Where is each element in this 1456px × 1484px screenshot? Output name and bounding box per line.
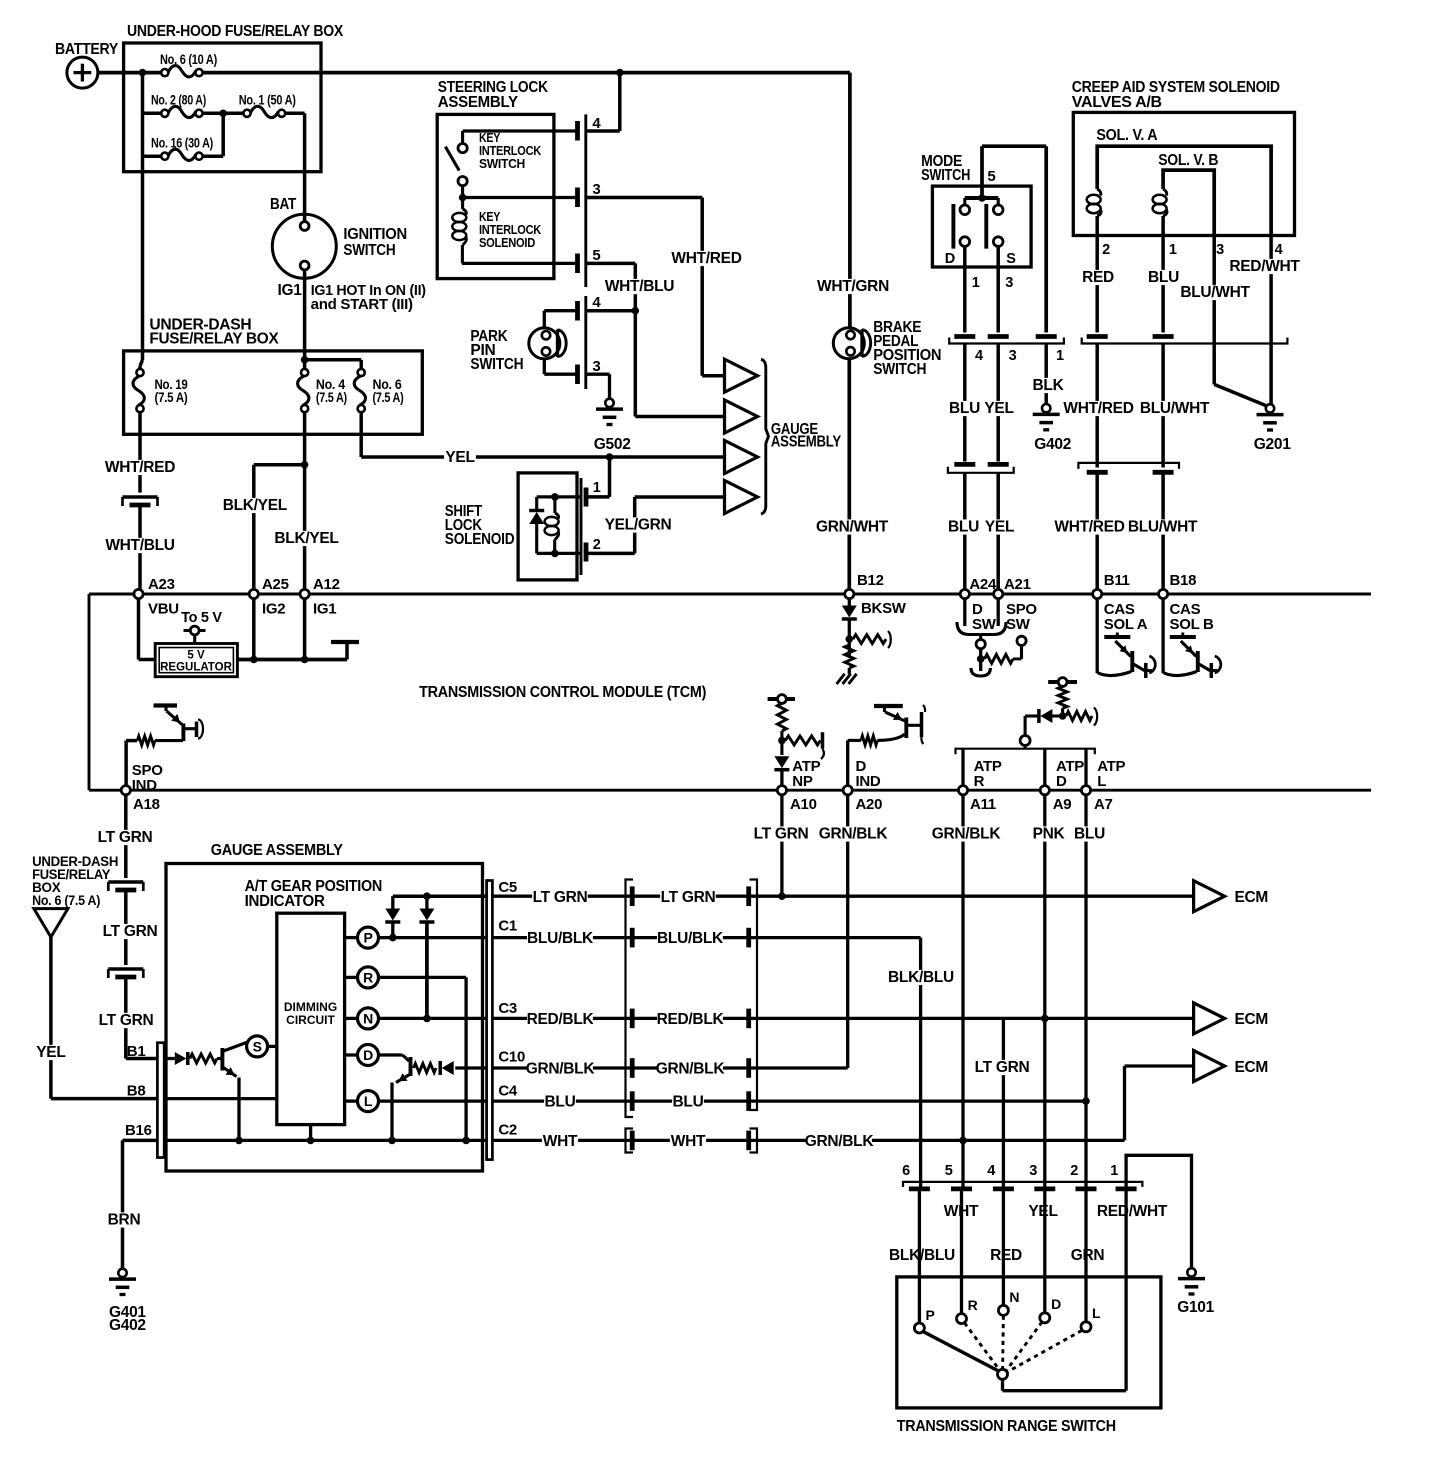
wire BLK mode pin 1 to ground	[1044, 344, 1048, 404]
BKSW junction	[846, 635, 854, 643]
D SW / SPO SW input bracket	[963, 599, 966, 626]
svg-text:C1: C1	[498, 918, 517, 935]
steering lock assembly box	[437, 114, 554, 278]
svg-text:2: 2	[593, 537, 601, 553]
svg-text:SOL. V. A: SOL. V. A	[1096, 127, 1157, 144]
B1 resistor	[190, 1054, 217, 1063]
svg-text:IGNITION: IGNITION	[343, 226, 407, 243]
svg-text:RED/WHT: RED/WHT	[1097, 1203, 1168, 1220]
contact P	[914, 1323, 924, 1333]
svg-text:5: 5	[945, 1163, 953, 1179]
brake pedal position switch	[833, 328, 864, 359]
wire WHT/RED to TCM B11	[1095, 475, 1099, 590]
shift lock coil	[553, 497, 556, 513]
svg-text:IND: IND	[856, 773, 881, 790]
wire mode D to connector	[963, 246, 967, 332]
svg-text:B1: B1	[127, 1043, 146, 1060]
shift lock connector strip	[580, 478, 583, 575]
fuse No.6 (10 A)	[161, 69, 168, 76]
svg-text:BLK/YEL: BLK/YEL	[274, 530, 338, 547]
svg-text:YEL: YEL	[984, 400, 1013, 417]
park pin connector strip	[584, 296, 587, 389]
svg-text:3: 3	[1216, 242, 1224, 258]
wire SPO IND to A18	[126, 739, 137, 743]
svg-text:PNK: PNK	[1033, 826, 1066, 843]
dashed contact R to common	[965, 1323, 1000, 1370]
BKSW series resistor down	[845, 645, 854, 668]
dimming circuit box	[277, 913, 345, 1124]
transmission control module TCM outline	[89, 593, 1371, 596]
wire down to No.2/No.16 fuses	[141, 73, 145, 114]
svg-text:R: R	[363, 969, 373, 985]
wire mode S to connector	[996, 246, 1000, 332]
pin 5	[575, 254, 580, 274]
wire pin 4 up to battery feed	[586, 129, 620, 133]
svg-text:A9: A9	[1053, 796, 1072, 813]
fuse No.16 (30 A)	[161, 153, 168, 160]
gauge assembly input 4	[725, 481, 758, 514]
wire diode to C10	[455, 1066, 486, 1069]
fuse No.19 (7.5 A)	[141, 351, 145, 360]
wire dimming to R	[345, 976, 358, 979]
wire WHT/BLU pin 5 to gauge	[586, 262, 636, 266]
svg-text:To 5 V: To 5 V	[181, 610, 222, 626]
svg-text:R: R	[974, 773, 985, 790]
wire WHT/RED creep A down	[1095, 344, 1099, 468]
svg-text:A23: A23	[148, 576, 175, 593]
wire diode to ATP common	[1025, 714, 1039, 717]
svg-text:G101: G101	[1177, 1299, 1214, 1316]
B1 input diode	[164, 1057, 175, 1060]
CAS SOL A driver	[1096, 599, 1099, 673]
svg-text:5: 5	[592, 247, 600, 264]
wire A20 GRN/BLK down	[846, 795, 849, 1068]
wire A9 PNK down	[1043, 795, 1046, 1019]
wire pin 5 into switch	[960, 1191, 963, 1314]
svg-text:G402: G402	[1034, 436, 1071, 453]
indicator bulb N	[358, 1008, 379, 1029]
svg-text:D: D	[363, 1047, 373, 1063]
gauge connector strip B	[157, 1043, 164, 1158]
mode switch contact circles	[960, 205, 970, 215]
svg-text:A18: A18	[133, 796, 160, 813]
svg-text:L: L	[1097, 773, 1106, 790]
node B12 BKSW	[845, 589, 854, 598]
svg-text:R: R	[968, 1297, 978, 1313]
wire ATP D to A9	[1043, 749, 1046, 786]
wire LT GRN	[124, 890, 128, 965]
svg-text:5: 5	[987, 168, 995, 185]
svg-text:SWITCH: SWITCH	[921, 167, 970, 184]
gauge assembly input 1	[725, 359, 758, 392]
svg-text:DIMMING: DIMMING	[284, 1000, 337, 1014]
svg-text:S: S	[1006, 251, 1016, 267]
shift lock solenoid box	[518, 473, 577, 580]
transmission range switch box	[897, 1277, 1161, 1408]
junction battery feed	[616, 69, 624, 77]
svg-text:BLK/YEL: BLK/YEL	[223, 497, 287, 514]
inline connector creep row 1	[1087, 334, 1108, 339]
wire dimming to D	[345, 1053, 358, 1056]
wire range switch pin 6 label	[889, 1248, 955, 1263]
svg-text:SOLENOID: SOLENOID	[479, 236, 535, 250]
ECM input 2	[1194, 1003, 1225, 1034]
wire RED/WHT creep pin 4 to ground	[1269, 258, 1273, 404]
node B18 CAS SOL B	[1159, 589, 1168, 598]
svg-text:WHT: WHT	[671, 1133, 706, 1150]
wire BLK/YEL from No.4 fuse to A12 and A25	[303, 412, 307, 589]
svg-text:BLU/BLK: BLU/BLK	[657, 930, 724, 947]
wire A25 internal	[252, 599, 256, 660]
svg-text:A21: A21	[1004, 576, 1031, 593]
wire WHT/BLU to TCM A23	[138, 505, 142, 589]
inline connector mode switch row 1	[954, 334, 975, 339]
indicator bulb S	[247, 1036, 268, 1057]
svg-text:LT GRN: LT GRN	[754, 826, 809, 843]
ATP common contact	[1020, 736, 1030, 746]
svg-text:C3: C3	[498, 1000, 517, 1017]
svg-text:BLU: BLU	[1074, 826, 1105, 843]
5 V regulator	[155, 644, 237, 677]
wire GRN/WHT to TCM B12	[847, 359, 851, 590]
svg-text:YEL: YEL	[36, 1044, 65, 1061]
dashed contact D to common	[1006, 1322, 1042, 1371]
ATP pull-up node	[1048, 680, 1077, 684]
wire A10 LT GRN down	[780, 795, 783, 896]
wire key interlock switch to pin 4	[463, 129, 576, 132]
node A20 D IND	[843, 786, 852, 795]
svg-text:1: 1	[1169, 242, 1177, 258]
pin 2 shift lock	[584, 543, 589, 562]
svg-text:(7.5 A): (7.5 A)	[316, 390, 347, 405]
node A12 IG1	[300, 589, 309, 598]
diode to N line	[425, 896, 428, 908]
wire B16 line to C2	[164, 1139, 486, 1142]
svg-text:C5: C5	[498, 879, 517, 896]
svg-text:GRN/BLK: GRN/BLK	[656, 1061, 726, 1078]
wire R to C2 internal	[379, 976, 467, 979]
wire P to C1	[379, 936, 487, 939]
contact L	[1081, 1322, 1091, 1332]
svg-text:INTERLOCK: INTERLOCK	[479, 144, 541, 158]
wire solenoid to pin 5	[462, 262, 576, 265]
gauge assembly box	[166, 864, 483, 1172]
shift lock diode	[535, 497, 538, 511]
svg-text:INTERLOCK: INTERLOCK	[479, 223, 541, 237]
node A18 SPO IND	[121, 786, 130, 795]
svg-text:SWITCH: SWITCH	[873, 361, 926, 378]
wire pin 4 into switch	[1002, 1191, 1005, 1305]
D SW sense contact	[976, 640, 985, 649]
inline connector creep row 2	[1078, 463, 1179, 469]
wire N to C3	[379, 1017, 487, 1020]
svg-text:6: 6	[902, 1163, 910, 1179]
wire C2 WHT GRN/BLK to ECM	[492, 1139, 1124, 1142]
svg-text:S: S	[253, 1038, 262, 1054]
wire junction down to No.16	[221, 113, 225, 156]
wire BLU/WHT creep B down	[1161, 344, 1165, 468]
svg-text:BKSW: BKSW	[861, 600, 907, 617]
svg-text:SOL. V. B: SOL. V. B	[1158, 152, 1218, 169]
svg-text:5 V: 5 V	[187, 650, 205, 662]
wire to No.4 and No.6 fuses	[305, 358, 362, 362]
wire YEL from No.6 fuse to gauge assembly	[359, 412, 363, 457]
svg-text:SOL B: SOL B	[1170, 616, 1215, 633]
dashed contact N to common	[1001, 1316, 1005, 1369]
svg-text:GRN/BLK: GRN/BLK	[932, 826, 1002, 843]
svg-text:A7: A7	[1094, 796, 1113, 813]
wire ATP R to A11	[961, 749, 964, 786]
svg-text:GRN/BLK: GRN/BLK	[805, 1133, 875, 1150]
wire S transistor emitter to B16	[237, 1078, 240, 1141]
svg-text:3: 3	[1009, 348, 1017, 364]
pin 1 shift lock	[584, 488, 589, 507]
svg-text:ASSEMBLY: ASSEMBLY	[438, 94, 519, 111]
wire pin 3 to ground	[586, 373, 610, 376]
wire C1 BLU/BLK	[492, 936, 920, 939]
svg-text:L: L	[1092, 1305, 1101, 1321]
contact R	[957, 1314, 967, 1324]
pin 3	[575, 188, 580, 208]
svg-text:SWITCH: SWITCH	[479, 157, 525, 171]
svg-text:C4: C4	[498, 1083, 518, 1100]
svg-text:YEL: YEL	[445, 449, 474, 466]
svg-text:No. 1 (50 A): No. 1 (50 A)	[239, 93, 296, 108]
wire A11 net to range switch pin 5	[961, 1140, 964, 1186]
ATP bracket	[956, 749, 1095, 755]
svg-text:LT GRN: LT GRN	[98, 829, 153, 846]
svg-text:A25: A25	[262, 576, 289, 593]
range switch common contact	[998, 1369, 1008, 1379]
svg-text:IG1: IG1	[278, 282, 303, 299]
gauge assembly brace	[761, 359, 769, 514]
svg-text:N: N	[363, 1010, 373, 1026]
ground G502	[605, 399, 613, 407]
svg-text:FUSE/RELAY BOX: FUSE/RELAY BOX	[149, 330, 279, 347]
svg-text:A24: A24	[969, 576, 997, 593]
under-dash fuse/relay box	[124, 351, 423, 434]
node A25 IG2	[249, 589, 258, 598]
svg-text:BLU/WHT: BLU/WHT	[1180, 284, 1250, 301]
indicator bulb P	[358, 927, 379, 948]
wire WHT/RED pin 3 to gauge	[586, 196, 702, 200]
fuse No.6 (7.5 A)	[358, 369, 365, 376]
wire pin 6 into switch	[918, 1191, 921, 1323]
svg-text:IG2: IG2	[262, 601, 285, 618]
svg-text:1: 1	[972, 275, 980, 291]
wire common to pin 1	[1001, 1379, 1004, 1390]
svg-text:D: D	[945, 251, 955, 267]
under-hood fuse/relay box	[124, 43, 321, 172]
svg-text:B16: B16	[125, 1122, 152, 1139]
svg-text:SOLENOID: SOLENOID	[445, 531, 515, 548]
wire S to dimming	[268, 1045, 276, 1048]
wire L to C4	[379, 1099, 487, 1102]
wire pin 4 RED label	[990, 1248, 1022, 1263]
contact D	[1040, 1313, 1050, 1323]
wire B8 to dimming circuit	[164, 1097, 277, 1100]
wire dimming to N	[345, 1017, 358, 1020]
ATP NP diode	[774, 756, 789, 768]
range switch pin bars	[909, 1187, 930, 1192]
pin 4 park pin	[575, 301, 580, 321]
wire YEL mode S down	[996, 344, 1000, 462]
ATP NP resistor right	[785, 736, 820, 745]
svg-text:LT GRN: LT GRN	[975, 1059, 1030, 1076]
battery	[67, 57, 98, 88]
SPO SW sense contact	[1017, 636, 1026, 645]
pin 4	[575, 121, 580, 141]
svg-text:GRN/BLK: GRN/BLK	[819, 826, 889, 843]
svg-text:(7.5 A): (7.5 A)	[373, 390, 404, 405]
gauge assembly input 2	[725, 400, 758, 433]
svg-text:4: 4	[987, 1163, 995, 1179]
wire pin 4 to WHT/BLU junction	[586, 309, 636, 313]
svg-text:BLU: BLU	[1148, 269, 1179, 286]
node B11 CAS SOL A	[1093, 589, 1102, 598]
wire junction to pin 3	[463, 196, 576, 199]
svg-text:3: 3	[1005, 275, 1013, 291]
ground G401 G402	[118, 1269, 126, 1277]
svg-text:ECM: ECM	[1235, 1059, 1269, 1076]
svg-text:NP: NP	[792, 773, 813, 790]
svg-text:BLU/WHT: BLU/WHT	[1128, 519, 1198, 536]
wire pin 1 into solenoid	[586, 495, 610, 499]
pin 3 park pin	[575, 365, 580, 385]
svg-text:WHT/RED: WHT/RED	[105, 459, 175, 476]
CAS SOL B driver	[1161, 599, 1164, 673]
svg-text:1: 1	[1056, 348, 1064, 364]
creep pin 2	[1095, 236, 1099, 265]
D IND driver transistor	[846, 740, 849, 785]
BKSW internal ground	[848, 668, 851, 674]
svg-text:D: D	[1056, 773, 1067, 790]
node A10 ATP NP	[777, 786, 786, 795]
svg-text:TRANSMISSION RANGE SWITCH: TRANSMISSION RANGE SWITCH	[897, 1418, 1116, 1435]
svg-text:RED: RED	[1082, 269, 1114, 286]
contact N	[998, 1305, 1008, 1315]
wire park pin switch to pin 3	[543, 359, 546, 374]
svg-text:B18: B18	[1170, 572, 1197, 589]
wire battery to under-hood box	[98, 71, 124, 75]
svg-text:WHT/BLU: WHT/BLU	[105, 537, 174, 554]
svg-text:B11: B11	[1104, 572, 1130, 589]
key interlock solenoid	[461, 198, 464, 210]
svg-text:LT GRN: LT GRN	[99, 1012, 154, 1029]
wire regulator output to IG nodes	[237, 658, 347, 662]
svg-text:L: L	[364, 1093, 373, 1109]
D driver transistor	[409, 1057, 413, 1076]
BKSW pull resistor right	[853, 635, 886, 644]
svg-text:No. 6 (7.5 A): No. 6 (7.5 A)	[32, 893, 100, 908]
ground G101	[1187, 1268, 1195, 1276]
svg-text:3: 3	[592, 358, 600, 375]
wire YEL to TCM A21	[996, 473, 1000, 590]
mode switch blades	[951, 204, 955, 249]
wire A23 to regulator	[137, 599, 141, 660]
svg-text:GRN/WHT: GRN/WHT	[816, 519, 889, 536]
internal power tap	[345, 642, 349, 660]
svg-text:C2: C2	[498, 1122, 517, 1139]
diode to P line	[391, 896, 394, 908]
svg-text:ASSEMBLY: ASSEMBLY	[771, 434, 842, 451]
SPO IND resistor	[155, 739, 183, 742]
svg-text:No. 2 (80 A): No. 2 (80 A)	[151, 93, 206, 108]
wire BLU creep pin 1	[1161, 265, 1165, 333]
fuse No.4 (7.5 A)	[301, 369, 308, 376]
svg-text:RED: RED	[990, 1247, 1022, 1264]
node A9 ATP D	[1040, 786, 1049, 795]
range switch connector bracket	[903, 1182, 1142, 1187]
ATP NP pull-up	[768, 697, 795, 701]
dashed contact L to common	[1008, 1331, 1082, 1372]
wire dimming to P	[345, 936, 358, 939]
wire No.1 fuse to ignition switch BAT	[285, 112, 304, 116]
wire pin 2 GRN label	[1072, 1248, 1104, 1263]
svg-text:WHT/RED: WHT/RED	[671, 250, 741, 267]
wire A9 to range switch pin 3	[1043, 1018, 1046, 1186]
wire A12 internal	[303, 599, 307, 660]
svg-text:C10: C10	[498, 1049, 525, 1066]
D driver resistor	[414, 1064, 437, 1073]
svg-text:SWITCH: SWITCH	[470, 356, 523, 373]
svg-text:4: 4	[1275, 242, 1283, 258]
junction IG1 feed	[301, 356, 309, 364]
key interlock switch	[461, 131, 464, 143]
wire A11 GRN/BLK down	[961, 795, 964, 1141]
inline connector C2 right	[750, 1129, 758, 1153]
svg-text:GAUGE ASSEMBLY: GAUGE ASSEMBLY	[211, 842, 344, 859]
svg-text:REGULATOR: REGULATOR	[160, 662, 232, 674]
junction No.2/No.1/No.16	[219, 110, 227, 118]
svg-text:No. 6 (10 A): No. 6 (10 A)	[160, 52, 217, 67]
svg-text:BLU: BLU	[545, 1094, 576, 1111]
wire YEL/GRN pin 2 to gauge	[586, 552, 635, 556]
svg-text:A12: A12	[313, 576, 340, 593]
steering lock connector strip	[584, 114, 587, 287]
wire C10 GRN/BLK to A20	[492, 1066, 847, 1069]
wire YEL from fuse No.6 to B8	[49, 937, 53, 1099]
inline connector gauge harness right	[750, 880, 758, 1111]
svg-text:3: 3	[1029, 1163, 1037, 1179]
indicator bulb D	[358, 1045, 379, 1066]
ECM input 1	[1194, 881, 1225, 912]
SPO IND driver transistor	[154, 703, 178, 707]
fuse No.2 (80 A)	[161, 110, 168, 117]
svg-text:G402: G402	[109, 1317, 146, 1334]
svg-text:BRN: BRN	[108, 1212, 141, 1229]
wire BLU/WHT to TCM B18	[1161, 475, 1165, 590]
wire pin 1 to ground G101	[1126, 1155, 1191, 1268]
S driver transistor	[220, 1048, 224, 1071]
svg-text:RED/WHT: RED/WHT	[1229, 258, 1300, 275]
svg-text:BLK/BLU: BLK/BLU	[888, 969, 954, 986]
ECM input 3	[1194, 1051, 1225, 1082]
inline connector C2 left	[626, 1129, 634, 1153]
svg-text:ECM: ECM	[1235, 889, 1269, 906]
svg-text:GRN/BLK: GRN/BLK	[526, 1061, 596, 1078]
ground G201	[1266, 404, 1274, 412]
svg-text:4: 4	[975, 348, 983, 364]
wire pin 1 to common	[1124, 1191, 1127, 1391]
wire transistor emitter to B16 line	[390, 1083, 393, 1141]
svg-text:A20: A20	[856, 796, 883, 813]
svg-text:2: 2	[1102, 242, 1110, 258]
svg-text:LT GRN: LT GRN	[533, 889, 588, 906]
park pin switch	[529, 328, 560, 359]
wire BLU mode D down	[963, 344, 967, 462]
wire A7 to range switch pin 2	[1084, 1101, 1087, 1186]
